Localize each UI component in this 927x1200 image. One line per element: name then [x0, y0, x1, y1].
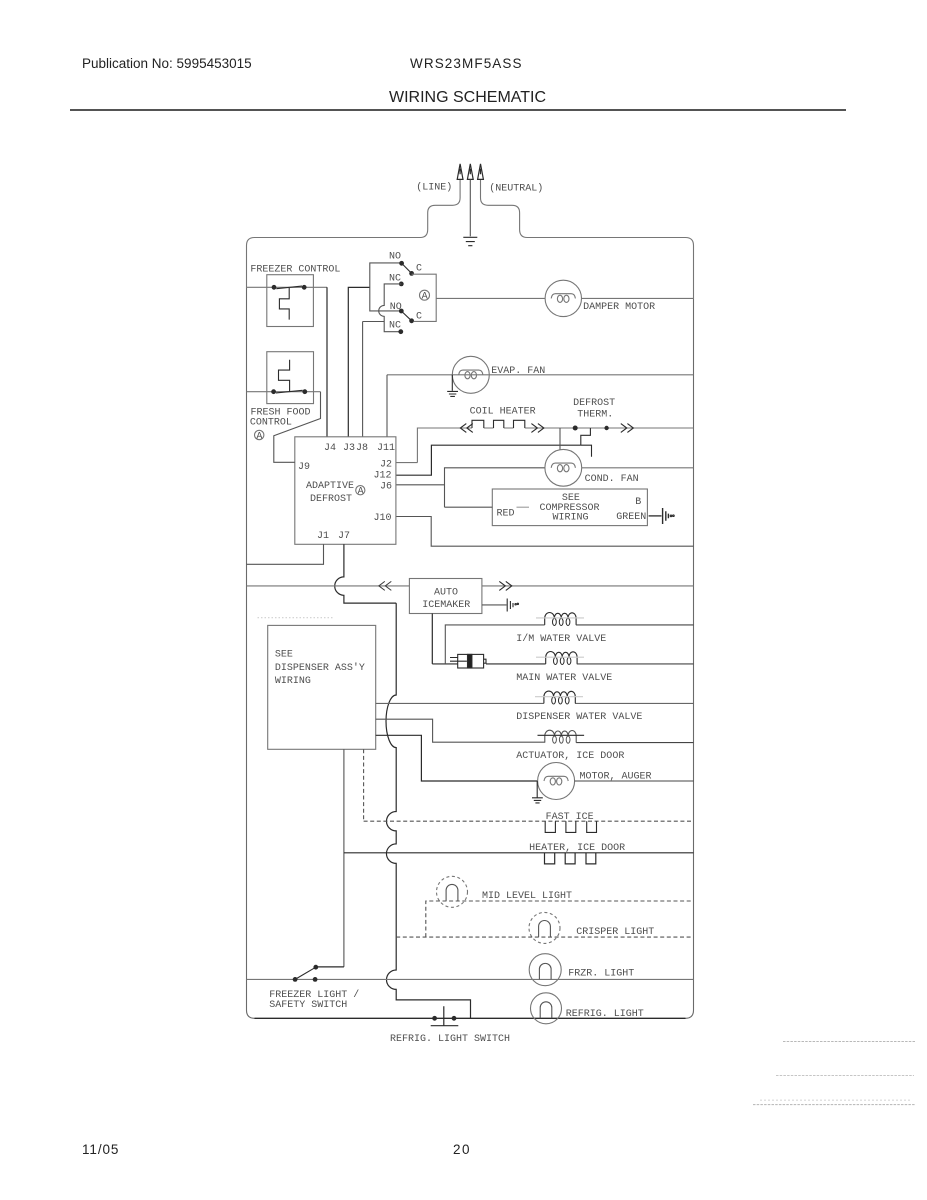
evap fan ground	[447, 375, 458, 397]
svg-text:J10: J10	[374, 513, 392, 524]
actuator ice door coil	[545, 730, 576, 743]
damper motor	[545, 280, 581, 316]
wire NC tie to J8	[363, 321, 385, 323]
I/M coil ghost line	[536, 617, 584, 619]
relay upper NC dot	[399, 282, 404, 287]
red wire stub inside box	[517, 506, 530, 508]
connector chevrons right of thermostat	[621, 424, 634, 433]
wire crisper row dashed	[396, 936, 693, 938]
svg-text:WRS23MF5ASS: WRS23MF5ASS	[410, 56, 523, 71]
wire safety switch to dispenser feed	[316, 966, 344, 968]
outer boundary top-right	[481, 180, 694, 299]
svg-text:THERM.: THERM.	[577, 410, 613, 421]
auger motor ground	[532, 781, 543, 803]
svg-text:DEFROST: DEFROST	[310, 494, 352, 505]
wire I/M valve to neutral	[576, 624, 694, 626]
svg-text:REFRIG. LIGHT SWITCH: REFRIG. LIGHT SWITCH	[390, 1034, 510, 1045]
wire heater ice door row	[344, 852, 694, 854]
svg-text:11/05: 11/05	[82, 1142, 119, 1157]
wire relay output to damper	[436, 297, 545, 299]
relay lower blade	[401, 311, 411, 321]
svg-text:Publication No: 5995453015: Publication No: 5995453015	[82, 56, 252, 71]
svg-text:J4: J4	[324, 443, 336, 454]
svg-text:ICEMAKER: ICEMAKER	[422, 600, 470, 611]
fast ice heater element	[545, 821, 596, 832]
wire NC tie vertical with hop	[379, 284, 402, 332]
wire icemaker ground lead	[482, 604, 507, 606]
freezer control contact dots	[272, 285, 307, 290]
svg-text:WIRING: WIRING	[553, 513, 589, 524]
fresh food blade	[276, 390, 303, 393]
svg-text:I/M WATER VALVE: I/M WATER VALVE	[516, 633, 606, 645]
wire icemaker row right	[482, 585, 694, 587]
svg-text:B: B	[635, 497, 641, 508]
wire auger feed	[376, 735, 538, 781]
bottom right faint line 3	[753, 1104, 915, 1106]
svg-text:DEFROST: DEFROST	[573, 398, 615, 409]
svg-text:FRZR. LIGHT: FRZR. LIGHT	[568, 968, 634, 979]
safety switch dots	[293, 965, 318, 982]
freezer control thermostat step	[279, 288, 289, 320]
outer boundary left side	[247, 287, 255, 1018]
wire J1 to line bus	[247, 544, 324, 564]
mid level light lamp	[437, 876, 468, 907]
wire J3 vertical	[348, 287, 370, 436]
svg-text:ADAPTIVE: ADAPTIVE	[306, 481, 354, 492]
wire dispenser box down solid	[343, 749, 345, 967]
adaptive defrost board box	[295, 437, 396, 545]
main water valve coil	[546, 652, 577, 665]
wire dispenser box down dashed	[363, 749, 365, 821]
auto icemaker box	[409, 579, 482, 614]
see dispenser box	[268, 625, 376, 749]
wire freezer light row	[247, 978, 694, 980]
svg-text:DISPENSER WATER VALVE: DISPENSER WATER VALVE	[516, 712, 642, 723]
auger motor	[538, 763, 575, 800]
wire J8 vertical	[362, 322, 364, 437]
svg-text:A: A	[256, 431, 262, 442]
freezer control box	[267, 275, 314, 327]
svg-text:CONTROL: CONTROL	[250, 417, 292, 428]
faint dotted line above dispenser box	[258, 617, 334, 619]
actuator coil strike	[538, 734, 585, 736]
defrost thermostat step	[581, 428, 592, 457]
svg-text:AUTO: AUTO	[434, 587, 458, 598]
wire J6	[396, 468, 545, 507]
wire dispenser valve row	[376, 702, 694, 704]
fresh food circled A	[255, 430, 264, 442]
crisper light lamp	[529, 912, 560, 943]
compressor chassis ground	[663, 508, 675, 524]
wire icemaker box down	[431, 614, 433, 664]
wire cond fan feed	[559, 428, 561, 450]
svg-text:MID LEVEL LIGHT: MID LEVEL LIGHT	[482, 891, 572, 902]
outer boundary right side	[686, 298, 694, 1018]
connector chevrons right of heater	[531, 424, 544, 433]
svg-text:J3: J3	[343, 443, 355, 454]
header rule	[70, 109, 846, 111]
icemaker fuse	[450, 654, 486, 668]
refrig light lamp	[531, 993, 562, 1024]
wire fuse to main valve coil	[486, 663, 546, 665]
svg-text:MAIN WATER VALVE: MAIN WATER VALVE	[516, 673, 612, 684]
bottom right faint line 2	[776, 1075, 914, 1077]
I/M water valve coil	[545, 613, 576, 626]
relay upper C dot	[409, 271, 414, 276]
wire mid level row dashed	[426, 901, 694, 937]
svg-text:FREEZER CONTROL: FREEZER CONTROL	[250, 265, 340, 276]
relay NO bracket	[370, 263, 402, 311]
connector chevrons left of heater	[460, 424, 473, 433]
wire main valve to neutral	[577, 663, 694, 665]
dispenser coil ghost line	[535, 696, 583, 698]
wire J12 to thermostat	[396, 445, 581, 475]
wire icemaker row left	[247, 585, 410, 587]
svg-text:DAMPER MOTOR: DAMPER MOTOR	[583, 302, 655, 313]
wire fresh food to J9	[274, 392, 321, 463]
board circled A	[356, 486, 365, 498]
wire J2	[396, 462, 418, 464]
svg-text:(LINE): (LINE)	[416, 182, 452, 194]
coil heater element bumps	[472, 420, 525, 428]
svg-text:FREEZER LIGHT /: FREEZER LIGHT /	[269, 989, 359, 1001]
plug prong NEUTRAL arrow	[478, 164, 484, 180]
svg-text:NO: NO	[389, 251, 401, 262]
svg-text:EVAP. FAN: EVAP. FAN	[491, 366, 545, 377]
svg-text:RED: RED	[497, 508, 515, 519]
svg-text:SEE: SEE	[275, 650, 293, 661]
svg-text:J1: J1	[317, 531, 329, 542]
safety switch blade	[295, 967, 316, 979]
icemaker chassis ground	[507, 599, 518, 612]
svg-text:J2: J2	[380, 460, 392, 471]
wire evap fan row	[387, 374, 694, 376]
connector chevrons icemaker left	[379, 581, 392, 590]
fresh food feed wire	[247, 391, 321, 393]
wire to fuse	[432, 663, 457, 665]
relay lower NO dot	[399, 309, 404, 314]
wire damper to neutral	[582, 297, 694, 299]
wire defrost heater row	[417, 428, 693, 463]
wire J7 main vertical with hops	[386, 603, 470, 1018]
defrost thermostat dots	[573, 426, 609, 431]
wire fast ice row dashed	[364, 820, 694, 822]
evap fan motor	[452, 356, 489, 393]
outer boundary top-left	[247, 180, 461, 288]
plug prong middle arrow	[467, 164, 473, 180]
svg-text:WIRING: WIRING	[275, 676, 311, 687]
relay upper NO dot	[399, 261, 404, 266]
outer boundary bottom / refrig light row	[255, 1017, 686, 1019]
wire actuator to neutral	[576, 742, 693, 744]
relay lower NC dot	[398, 329, 403, 334]
earth wire	[469, 180, 471, 237]
freezer control blade	[276, 286, 302, 289]
wire J4 vertical	[326, 287, 328, 437]
connector chevrons icemaker right	[499, 581, 512, 590]
relay circled A	[420, 290, 430, 302]
fresh food contact dots	[271, 389, 307, 394]
bottom right faint ghost line	[760, 1099, 910, 1101]
svg-text:(NEUTRAL): (NEUTRAL)	[489, 183, 543, 195]
svg-text:WIRING SCHEMATIC: WIRING SCHEMATIC	[389, 89, 546, 106]
main coil ghost line	[536, 656, 584, 658]
svg-text:COND. FAN: COND. FAN	[585, 474, 639, 485]
wire RED to compressor	[445, 506, 493, 508]
svg-text:C: C	[416, 263, 422, 274]
wire J10	[396, 517, 694, 547]
earth ground symbol	[463, 237, 477, 245]
plug prong LINE arrow	[457, 164, 463, 180]
svg-text:J11: J11	[377, 443, 395, 454]
dispenser water valve coil	[544, 691, 575, 704]
svg-text:J9: J9	[298, 462, 310, 473]
svg-text:REFRIG. LIGHT: REFRIG. LIGHT	[566, 1009, 644, 1020]
svg-text:J12: J12	[374, 471, 392, 482]
ice door heater element	[545, 853, 596, 864]
wire auger to neutral	[575, 780, 694, 782]
svg-text:GREEN: GREEN	[616, 512, 646, 523]
svg-text:COIL HEATER: COIL HEATER	[470, 407, 536, 418]
cond fan motor	[545, 449, 582, 486]
svg-text:J6: J6	[380, 482, 392, 493]
bottom right faint line 1	[783, 1041, 915, 1043]
svg-text:DISPENSER ASS'Y: DISPENSER ASS'Y	[275, 662, 365, 674]
svg-text:SAFETY SWITCH: SAFETY SWITCH	[269, 1000, 347, 1011]
svg-text:J8: J8	[356, 443, 368, 454]
wire GREEN to chassis ground	[649, 515, 662, 517]
wire actuator feed	[376, 719, 545, 742]
wire cond fan to neutral	[582, 467, 694, 469]
svg-text:A: A	[422, 292, 428, 303]
wire J11 vertical	[386, 375, 388, 437]
relay box	[412, 274, 437, 321]
svg-text:NC: NC	[389, 320, 401, 331]
svg-text:A: A	[358, 486, 364, 497]
fresh food control box	[267, 352, 314, 404]
frzr light lamp	[529, 954, 561, 986]
freezer control feed wire	[247, 286, 328, 288]
svg-text:20: 20	[453, 1142, 471, 1157]
refrig light switch	[431, 1006, 459, 1025]
svg-text:ACTUATOR, ICE DOOR: ACTUATOR, ICE DOOR	[516, 751, 624, 762]
wire J7 upper with hop	[335, 544, 396, 603]
wire I/M valve feed	[445, 625, 544, 664]
relay upper blade	[402, 263, 412, 273]
svg-text:J7: J7	[338, 531, 350, 542]
compressor wiring box	[492, 489, 647, 526]
fresh food thermostat step	[279, 360, 290, 391]
relay lower C dot	[409, 318, 414, 323]
